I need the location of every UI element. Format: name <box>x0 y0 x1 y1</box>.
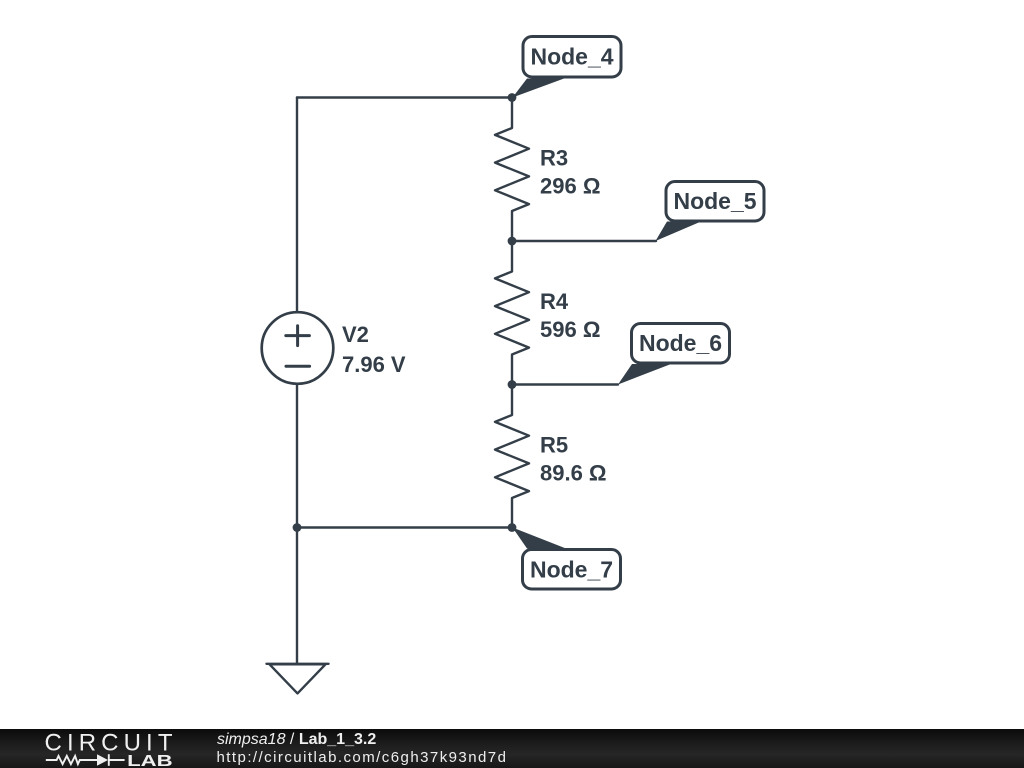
svg-text:R3: R3 <box>540 146 568 171</box>
voltage source V2 circle <box>262 312 334 384</box>
svg-text:Node_4: Node_4 <box>530 44 613 70</box>
callout tail Node_6 <box>618 364 671 385</box>
V2 plus sign <box>286 326 310 346</box>
svg-text:Node_5: Node_5 <box>673 188 756 214</box>
node A junction dot top <box>508 93 517 102</box>
resistor R4 <box>495 241 529 385</box>
svg-text:7.96 V: 7.96 V <box>342 352 406 377</box>
svg-text:296 Ω: 296 Ω <box>540 174 600 199</box>
logo diode triangle <box>97 754 108 766</box>
node B junction dot R3/R4 <box>508 237 517 246</box>
callout box Node_4 <box>523 37 621 78</box>
resistor R3 <box>495 98 529 242</box>
callout tail Node_7 <box>513 528 567 549</box>
svg-text:89.6 Ω: 89.6 Ω <box>540 461 607 486</box>
callout box Node_7 <box>523 550 621 590</box>
wire bottom horizontal <box>297 526 512 528</box>
callout box Node_5 <box>666 182 764 222</box>
wire to ground <box>296 528 298 664</box>
wire V2 bottom vertical <box>296 384 298 528</box>
footer bar <box>0 729 1024 768</box>
node E junction dot bottom left <box>293 523 302 532</box>
svg-text:596 Ω: 596 Ω <box>540 317 600 342</box>
svg-text:R4: R4 <box>540 289 569 314</box>
logo resistor squiggle + diode wire <box>46 754 125 766</box>
callout tail Node_4 <box>513 79 565 98</box>
node D junction dot bottom right <box>508 523 517 532</box>
wire left vertical upper <box>296 98 298 313</box>
callout box Node_6 <box>632 324 730 364</box>
resistor R5 <box>495 385 529 528</box>
wire top horizontal <box>297 96 512 98</box>
wire node5 horizontal <box>512 240 656 242</box>
svg-text:Node_7: Node_7 <box>530 557 613 583</box>
footer url line <box>217 750 508 765</box>
svg-text:R5: R5 <box>540 433 568 458</box>
node C junction dot R4/R5 <box>508 380 517 389</box>
svg-text:LAB: LAB <box>127 753 173 768</box>
CircuitLab logo <box>0 729 210 768</box>
svg-text:V2: V2 <box>342 322 369 347</box>
V2 minus sign <box>286 365 310 368</box>
ground <box>267 663 329 665</box>
svg-text:Node_6: Node_6 <box>639 330 722 356</box>
callout tail Node_5 <box>656 222 702 242</box>
wire node6 horizontal <box>512 383 618 385</box>
footer title line <box>217 732 376 748</box>
